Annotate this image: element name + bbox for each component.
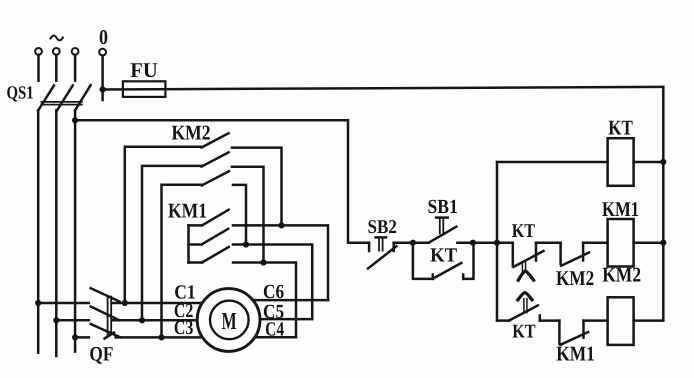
svg-text:M: M (222, 308, 237, 335)
svg-text:KT: KT (608, 116, 633, 140)
svg-text:QF: QF (89, 344, 113, 366)
svg-text:KM1: KM1 (602, 197, 639, 221)
svg-text:C6: C6 (263, 281, 284, 303)
svg-text:KT: KT (512, 221, 535, 242)
svg-text:FU: FU (130, 58, 158, 82)
svg-text:SB1: SB1 (428, 196, 458, 218)
svg-text:KT: KT (512, 322, 535, 343)
svg-text:C3: C3 (174, 317, 194, 339)
svg-text:KM2: KM2 (556, 266, 594, 290)
svg-text:KM1: KM1 (556, 342, 595, 366)
svg-text:KT: KT (430, 245, 458, 267)
svg-text:QS1: QS1 (7, 84, 34, 104)
svg-text:KM2: KM2 (172, 120, 211, 144)
svg-text:C4: C4 (265, 319, 284, 341)
svg-text:SB2: SB2 (368, 217, 397, 238)
svg-text:KM1: KM1 (168, 199, 207, 223)
svg-text:KM2: KM2 (602, 262, 641, 286)
svg-text:0: 0 (99, 25, 108, 49)
